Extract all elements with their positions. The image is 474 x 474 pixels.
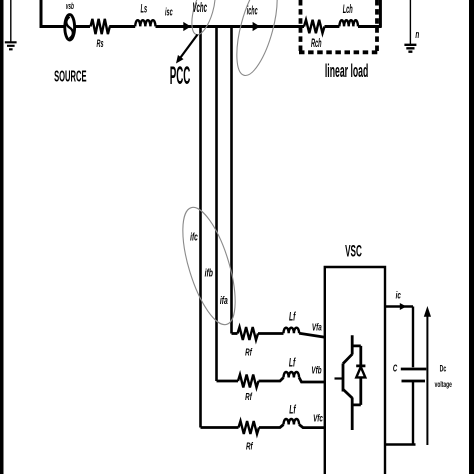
svg-text:Rf: Rf	[245, 346, 253, 358]
svg-text:SOURCE: SOURCE	[54, 67, 86, 85]
svg-text:vsb: vsb	[66, 0, 74, 11]
svg-text:VSC: VSC	[345, 241, 362, 260]
svg-text:C: C	[393, 363, 398, 374]
svg-text:Vfc: Vfc	[313, 412, 323, 424]
svg-text:linear load: linear load	[325, 61, 368, 81]
svg-text:Rs: Rs	[96, 37, 103, 50]
svg-text:voltage: voltage	[435, 381, 452, 390]
svg-text:ic: ic	[396, 289, 402, 301]
svg-text:Rf: Rf	[246, 440, 254, 452]
svg-text:Lch: Lch	[343, 3, 353, 16]
svg-text:n: n	[415, 28, 419, 40]
svg-text:ifb: ifb	[205, 267, 214, 279]
svg-text:isc: isc	[165, 5, 173, 18]
svg-text:Vfb: Vfb	[311, 364, 321, 376]
svg-text:Dc: Dc	[440, 363, 447, 374]
svg-text:ichc: ichc	[247, 4, 258, 17]
svg-text:Vfa: Vfa	[312, 321, 322, 333]
svg-text:Rch: Rch	[311, 37, 322, 50]
svg-text:Ls: Ls	[141, 2, 148, 15]
svg-text:ifc: ifc	[190, 231, 198, 243]
svg-text:Vchc: Vchc	[192, 1, 207, 15]
svg-text:ifa: ifa	[220, 294, 228, 306]
svg-text:Rf: Rf	[245, 390, 253, 402]
svg-text:PCC: PCC	[170, 63, 191, 91]
